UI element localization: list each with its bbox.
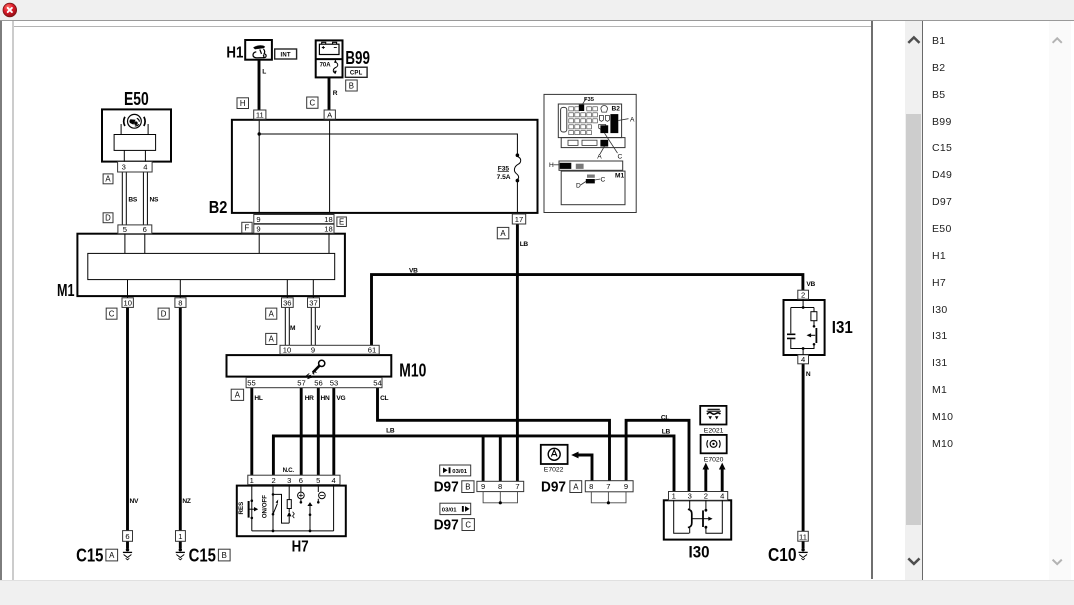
svg-text:6: 6 xyxy=(125,532,129,541)
svg-text:HR: HR xyxy=(305,395,314,402)
svg-text:70A: 70A xyxy=(320,63,332,69)
svg-text:2: 2 xyxy=(801,291,805,300)
svg-text:CPL: CPL xyxy=(350,71,363,77)
svg-text:I31: I31 xyxy=(832,317,853,337)
svg-text:A: A xyxy=(597,154,602,161)
svg-text:M10: M10 xyxy=(399,361,426,381)
svg-text:D97: D97 xyxy=(434,517,459,534)
svg-text:10: 10 xyxy=(283,345,291,354)
svg-text:17: 17 xyxy=(515,215,523,224)
svg-text:A: A xyxy=(573,483,579,492)
svg-text:A: A xyxy=(109,551,115,560)
svg-text:9: 9 xyxy=(256,215,260,224)
svg-text:3: 3 xyxy=(287,476,291,485)
svg-text:4: 4 xyxy=(331,476,335,485)
svg-text:53: 53 xyxy=(330,378,338,387)
svg-text:10: 10 xyxy=(123,298,131,307)
svg-text:3: 3 xyxy=(688,492,692,501)
svg-text:C: C xyxy=(618,154,623,161)
svg-text:CL: CL xyxy=(661,414,669,421)
svg-text:B2: B2 xyxy=(612,105,621,112)
svg-text:1: 1 xyxy=(178,532,182,541)
svg-text:B: B xyxy=(349,82,354,91)
svg-text:C10: C10 xyxy=(768,545,797,565)
svg-text:F: F xyxy=(245,224,250,233)
svg-text:4: 4 xyxy=(801,355,805,364)
svg-text:B: B xyxy=(465,483,470,492)
svg-text:A: A xyxy=(235,391,241,400)
svg-text:L: L xyxy=(262,69,266,76)
svg-text:LB: LB xyxy=(386,427,395,434)
svg-text:A: A xyxy=(269,335,275,344)
svg-text:NS: NS xyxy=(150,197,159,204)
svg-text:E50: E50 xyxy=(124,89,149,109)
svg-text:VB: VB xyxy=(806,281,815,288)
svg-text:03/01: 03/01 xyxy=(452,469,467,475)
svg-text:VB: VB xyxy=(409,268,418,275)
svg-text:8: 8 xyxy=(589,482,593,491)
svg-text:E: E xyxy=(339,218,344,227)
svg-text:H7: H7 xyxy=(292,538,309,555)
svg-text:1: 1 xyxy=(672,492,676,501)
svg-text:B: B xyxy=(222,551,227,560)
svg-text:11: 11 xyxy=(799,533,807,542)
svg-text:HL: HL xyxy=(254,395,262,402)
svg-text:18: 18 xyxy=(324,225,332,234)
svg-text:CL: CL xyxy=(380,395,388,402)
svg-text:5: 5 xyxy=(316,476,320,485)
svg-text:M1: M1 xyxy=(615,173,624,180)
svg-text:9: 9 xyxy=(311,345,315,354)
svg-text:N: N xyxy=(806,371,811,378)
svg-text:D: D xyxy=(105,214,111,223)
svg-text:2: 2 xyxy=(704,492,708,501)
svg-text:NZ: NZ xyxy=(182,498,190,505)
svg-text:57: 57 xyxy=(297,378,305,387)
svg-text:A: A xyxy=(630,116,635,123)
svg-text:9: 9 xyxy=(624,482,628,491)
svg-text:D: D xyxy=(576,183,581,190)
svg-text:9: 9 xyxy=(481,482,485,491)
svg-text:6: 6 xyxy=(143,225,147,234)
svg-text:R: R xyxy=(333,90,338,97)
svg-text:8: 8 xyxy=(178,298,182,307)
svg-text:8: 8 xyxy=(498,482,502,491)
svg-text:4: 4 xyxy=(143,163,147,172)
svg-text:C: C xyxy=(601,177,606,184)
svg-text:A: A xyxy=(500,229,506,238)
svg-text:M1: M1 xyxy=(57,280,75,300)
svg-text:E7022: E7022 xyxy=(544,467,564,474)
svg-text:18: 18 xyxy=(324,215,332,224)
svg-text:H: H xyxy=(549,162,554,169)
svg-text:V: V xyxy=(316,325,321,332)
svg-text:LB: LB xyxy=(520,241,529,248)
svg-text:H1: H1 xyxy=(226,45,243,62)
svg-text:E7020: E7020 xyxy=(704,457,724,464)
svg-text:M: M xyxy=(290,325,296,332)
svg-text:A: A xyxy=(105,175,111,184)
svg-text:11: 11 xyxy=(256,110,264,119)
svg-text:61: 61 xyxy=(368,345,376,354)
svg-text:4: 4 xyxy=(720,492,724,501)
svg-text:H: H xyxy=(240,99,246,108)
svg-text:1: 1 xyxy=(250,476,254,485)
svg-text:5: 5 xyxy=(123,225,127,234)
svg-text:7: 7 xyxy=(515,482,519,491)
svg-text:54: 54 xyxy=(373,378,381,387)
svg-text:2: 2 xyxy=(271,476,275,485)
svg-text:36: 36 xyxy=(283,298,291,307)
svg-text:56: 56 xyxy=(314,378,322,387)
svg-text:A: A xyxy=(269,310,275,319)
svg-text:D97: D97 xyxy=(541,479,566,496)
svg-text:37: 37 xyxy=(309,298,317,307)
svg-text:C: C xyxy=(465,521,471,530)
svg-text:I30: I30 xyxy=(689,544,710,562)
svg-text:9: 9 xyxy=(256,225,260,234)
svg-text:6: 6 xyxy=(299,476,303,485)
svg-text:HN: HN xyxy=(321,395,330,402)
svg-text:55: 55 xyxy=(247,378,255,387)
svg-text:LB: LB xyxy=(662,428,671,435)
svg-text:C: C xyxy=(109,310,115,319)
svg-text:C: C xyxy=(309,99,315,108)
svg-text:7: 7 xyxy=(606,482,610,491)
svg-text:D97: D97 xyxy=(434,479,459,496)
svg-text:7.5A: 7.5A xyxy=(497,174,511,181)
svg-text:03/01: 03/01 xyxy=(442,508,457,514)
svg-text:NV: NV xyxy=(130,498,139,505)
svg-text:C15: C15 xyxy=(76,546,103,566)
svg-text:B2: B2 xyxy=(209,197,228,217)
svg-text:VG: VG xyxy=(336,395,345,402)
svg-text:F35: F35 xyxy=(584,97,595,103)
svg-text:INT: INT xyxy=(280,53,290,59)
svg-text:E2021: E2021 xyxy=(704,427,724,434)
svg-text:N.C.: N.C. xyxy=(283,467,295,474)
svg-text:ON/OFF: ON/OFF xyxy=(261,495,268,519)
svg-text:BS: BS xyxy=(128,197,137,204)
svg-text:C15: C15 xyxy=(189,546,216,566)
svg-text:B99: B99 xyxy=(345,48,370,68)
svg-text:D: D xyxy=(161,310,167,319)
svg-text:RES: RES xyxy=(238,502,245,515)
svg-text:3: 3 xyxy=(122,163,126,172)
